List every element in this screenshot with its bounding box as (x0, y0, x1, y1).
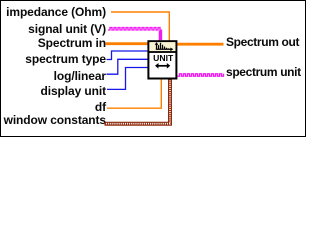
op icon divider (148, 51, 177, 53)
border frame (0, 0, 306, 137)
icon spectrum glyph up axis (156, 43, 158, 50)
icon double arrow (157, 65, 169, 67)
op icon cream header (149, 42, 175, 51)
svg-text:UNIT: UNIT (153, 53, 174, 63)
wire spectrum type blue (107, 51, 149, 60)
wire Spectrum in thick orange (106, 42, 149, 45)
label Spectrum out (226, 35, 299, 49)
label spectrum type (25, 52, 106, 66)
label log/linear (54, 69, 106, 83)
label spectrum unit (226, 65, 301, 79)
wire signal unit (V) magenta wavy horizontal (108, 28, 160, 30)
wire window constants white dots (106, 80, 170, 124)
wire log/linear blue (107, 59, 149, 74)
icon spectrum glyph right arrowhead (170, 48, 173, 52)
icon spectrum glyph bars (159, 43, 169, 50)
icon spectrum glyph baseline (156, 48, 172, 50)
label df (95, 100, 106, 114)
icon spectrum glyph up arrowhead (155, 42, 159, 45)
wire display unit blue (107, 68, 148, 90)
wire df orange L under icon (107, 79, 161, 108)
icon double arrow heads (155, 63, 170, 69)
wire impedance (Ohm) orange L (111, 12, 169, 41)
wire spectrum unit magenta wavy (178, 74, 224, 76)
wire Spectrum out thick orange (177, 43, 224, 46)
op icon UNIT body white box (148, 41, 176, 78)
label display unit (41, 84, 106, 98)
label window constants (4, 113, 106, 127)
label impedance (Ohm) (6, 5, 106, 19)
wire signal unit magenta wavy vertical drop (159, 30, 161, 40)
label signal unit (V) (28, 22, 106, 36)
wire window constants brown cluster (105, 79, 171, 124)
label Spectrum in (38, 36, 106, 50)
